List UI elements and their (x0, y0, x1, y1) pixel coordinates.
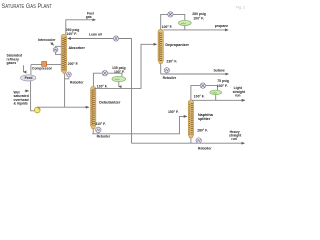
svg-text:gas: gas (86, 15, 92, 19)
wire pump discharge to debutanizer (37, 106, 89, 108)
svg-text:280° F.: 280° F. (197, 128, 208, 132)
reboiler depropanizer (164, 68, 169, 74)
svg-text:140° F.: 140° F. (66, 32, 77, 36)
condenser debutanizer (102, 71, 107, 76)
svg-text:& liquids: & liquids (14, 101, 28, 105)
svg-text:Absorber: Absorber (69, 46, 86, 50)
condenser splitter (200, 83, 205, 88)
svg-text:Intercooler: Intercooler (38, 38, 56, 42)
wire lean oil return line (131, 39, 133, 144)
svg-text:run: run (235, 93, 240, 97)
heat exchanger lean oil cooler (113, 36, 118, 41)
svg-text:100° F.: 100° F. (217, 84, 228, 88)
svg-text:130° F.: 130° F. (97, 85, 108, 89)
svg-text:Depropanizer: Depropanizer (165, 43, 189, 47)
wire absorber bottoms line (64, 74, 66, 107)
feed drum oval (21, 75, 36, 81)
intercooler loop piping (56, 46, 62, 54)
svg-text:310° F.: 310° F. (95, 122, 106, 126)
reboiler absorber (65, 72, 72, 79)
svg-text:230° F.: 230° F. (166, 60, 177, 64)
debutanizer column T-2 (91, 86, 96, 128)
svg-text:200° F.: 200° F. (68, 62, 79, 66)
svg-text:SATURATE GAS PLANT: SATURATE GAS PLANT (2, 3, 53, 10)
wire debutanizer overhead line (93, 73, 122, 86)
wire debutanizer bottoms line (92, 116, 187, 133)
svg-text:gases: gases (7, 61, 17, 65)
naphtha splitter column T-4 (188, 100, 193, 138)
svg-text:Compressor: Compressor (32, 67, 53, 71)
wire lean oil line (68, 38, 132, 40)
svg-text:butane: butane (214, 68, 225, 72)
reboiler splitter (196, 138, 201, 143)
svg-text:100° F.: 100° F. (162, 25, 173, 29)
svg-text:Reboiler: Reboiler (70, 80, 84, 84)
wire depropanizer overhead line (161, 14, 185, 29)
wire splitter bottoms heavy straight run line (132, 138, 245, 143)
wire light straight run product line (192, 99, 245, 101)
svg-text:Debutanizer: Debutanizer (99, 100, 121, 104)
wire compressor suction/discharge line (31, 65, 62, 75)
svg-text:reflux: reflux (212, 92, 217, 94)
drum splitter reflux (210, 90, 222, 94)
svg-text:Reboiler: Reboiler (97, 134, 111, 138)
drum depropanizer reflux (178, 20, 191, 25)
wire propane product line (163, 29, 228, 31)
wire gases feed arrow (23, 65, 25, 72)
reboiler debutanizer (96, 127, 101, 134)
svg-text:Fig. 2: Fig. 2 (236, 6, 245, 10)
svg-text:75 psig: 75 psig (217, 79, 229, 83)
wire drum outlet stub splitter (215, 95, 217, 101)
svg-text:280 psig: 280 psig (192, 12, 206, 16)
drum debutanizer reflux (112, 76, 126, 81)
wire drum outlet stub (118, 82, 120, 87)
pump P-1 (34, 107, 40, 113)
svg-text:100° F.: 100° F. (193, 16, 204, 20)
wire drum outlet stub deprop (184, 26, 186, 30)
condenser depropanizer (168, 12, 173, 17)
wire fuel gas line (66, 20, 96, 35)
svg-text:100° F.: 100° F. (114, 70, 125, 74)
wire depropanizer bottoms butane line (161, 64, 229, 74)
svg-text:propane: propane (215, 24, 228, 28)
svg-text:Lean oil: Lean oil (89, 32, 102, 36)
svg-text:reflux: reflux (115, 79, 120, 81)
svg-text:run: run (231, 137, 236, 141)
wire debutanizer reflux and deprop feed line (94, 44, 157, 88)
svg-text:290 psig: 290 psig (66, 28, 80, 32)
svg-text:Reboiler: Reboiler (198, 146, 212, 150)
depropanizer column T-3 (158, 29, 163, 63)
heat exchanger intercooler (53, 47, 58, 52)
svg-text:100° F.: 100° F. (194, 94, 205, 98)
wire splitter overhead line (191, 86, 218, 100)
svg-text:Reboiler: Reboiler (163, 76, 177, 80)
svg-text:reflux: reflux (181, 23, 186, 25)
absorber column T-1 (61, 34, 66, 73)
svg-text:Feed: Feed (25, 76, 33, 80)
svg-text:150° F.: 150° F. (168, 110, 179, 114)
compressor K-1 (42, 62, 47, 67)
wire feed drum bottom line (31, 81, 35, 111)
wire wet overhead arrow (25, 90, 29, 92)
svg-text:splitter: splitter (198, 117, 211, 121)
